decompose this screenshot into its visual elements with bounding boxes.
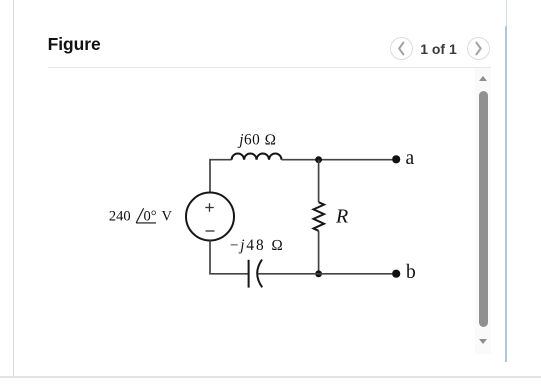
svg-text:240: 240	[109, 209, 131, 225]
right blue divider line	[506, 0, 507, 26]
source + mark	[205, 203, 213, 211]
capacitor C1 -j48: left plate	[248, 260, 250, 288]
resistor R	[314, 202, 325, 231]
capacitor curved plate	[257, 260, 262, 288]
page count 1 of 1	[408, 41, 469, 57]
header title Figure	[48, 34, 101, 55]
next button	[467, 37, 490, 60]
header separator	[48, 67, 491, 68]
voltage source VS 240/0 V	[186, 193, 234, 241]
svg-text:j60 Ω: j60 Ω	[237, 131, 277, 148]
svg-text:a: a	[406, 148, 415, 169]
wire: source bottom to bottom-left corner to capacitor	[210, 241, 249, 274]
terminal dot a	[392, 155, 400, 163]
angle slash	[136, 208, 143, 223]
prev button	[390, 37, 413, 60]
scrollbar up arrow	[479, 76, 487, 81]
wire: resistor down to bottom node	[318, 231, 320, 274]
svg-text:−j48 Ω: −j48 Ω	[230, 237, 285, 254]
scrollbar thumb	[479, 91, 488, 327]
wire: capacitor to node b (bottom wire)	[258, 273, 393, 275]
junction dot: top node	[315, 156, 322, 163]
svg-text:b: b	[406, 262, 416, 283]
inductor L1 j60	[232, 153, 282, 159]
terminal dot b	[392, 270, 400, 278]
angle underline	[136, 222, 156, 224]
wire: left branch top (source top to top-left corner to inductor)	[210, 160, 232, 193]
panel left border	[13, 0, 14, 377]
svg-text:0°: 0°	[144, 209, 157, 225]
scrollbar track	[475, 68, 491, 354]
svg-text:V: V	[162, 209, 173, 225]
wire: inductor to node a (top wire)	[282, 159, 393, 161]
svg-text:R: R	[335, 206, 348, 228]
wire: top node down to resistor	[318, 160, 320, 202]
source value label 240/0° V	[109, 209, 173, 225]
source - mark	[206, 230, 215, 232]
junction dot: bottom node	[315, 270, 322, 277]
scrollbar down arrow	[479, 339, 487, 344]
panel bottom border	[0, 376, 541, 378]
